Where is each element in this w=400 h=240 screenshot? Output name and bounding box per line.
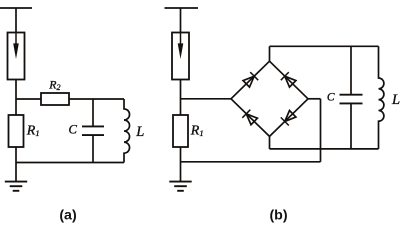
bridge diamond edge left-top (231, 61, 270, 99)
svg-text:(b): (b) (269, 207, 287, 223)
capacitor C lead bottom (b) (350, 104, 352, 149)
svg-text:L: L (135, 124, 144, 140)
wire bridge bottom vertex to tank bottom (269, 136, 271, 149)
svg-text:L: L (391, 92, 400, 108)
diode D1 (upper-left arm) (243, 72, 258, 87)
wire R1 to ground node (b) (180, 147, 182, 181)
wire node B to bridge left vertex (181, 98, 232, 100)
wire bridge top vertex to tank rail (269, 46, 271, 61)
capacitor C lead top (b) (350, 46, 352, 94)
wire top rail (b) (165, 7, 199, 9)
resistor R2 (41, 93, 69, 105)
diode D2 (upper-right arm) (281, 72, 296, 87)
current source I1 arrow (15, 33, 17, 44)
current source I2 box (172, 33, 189, 80)
resistor R1 (9, 115, 24, 147)
wire top lead (a) (15, 8, 17, 33)
ground (a) (5, 182, 27, 191)
bridge diamond edge top-right (270, 61, 309, 99)
wire bottom rail (a) (16, 162, 124, 164)
wire bridge return rail to ground node (181, 161, 321, 163)
wire R2 to tank top (a) (69, 98, 124, 100)
svg-text:C: C (327, 91, 335, 103)
capacitor C lead bottom (a) (92, 136, 94, 163)
wire node A to R2 (a) (16, 98, 41, 100)
svg-text:R2: R2 (48, 78, 60, 93)
wire tank bottom rail (b) (270, 148, 379, 150)
current source I2 arrow (180, 33, 182, 44)
wire node A to R1 (a) (15, 99, 17, 115)
svg-text:R1: R1 (26, 124, 40, 139)
bridge diamond edge left-bottom (231, 99, 270, 137)
svg-text:R1: R1 (190, 124, 204, 139)
ground (b) (169, 182, 191, 191)
inductor L (a) (124, 99, 130, 163)
wire bridge right vertex stub (308, 98, 321, 100)
wire tank top rail (b) (270, 45, 379, 47)
wire top lead (b) (180, 8, 182, 33)
wire top rail (a) (0, 7, 32, 9)
diode D4 (lower-right arm) (281, 111, 296, 126)
svg-text:C: C (69, 123, 78, 137)
current source I1 box (8, 33, 25, 80)
svg-text:(a): (a) (59, 207, 77, 223)
wire source to node A (a) (15, 80, 17, 100)
wire right vertex down (320, 99, 322, 162)
capacitor C plates (b) (340, 95, 363, 104)
diode D3 (lower-left arm) (242, 110, 257, 125)
resistor R1 (b) (173, 115, 188, 147)
wire node B to R1 (b) (180, 99, 182, 115)
capacitor C lead top (a) (92, 99, 94, 126)
wire R1 to ground node (a) (15, 147, 17, 181)
bridge diamond edge bottom-right (270, 99, 309, 137)
inductor L (b) (379, 46, 384, 149)
wire source to node B (b) (180, 80, 182, 100)
capacitor C plates (a) (82, 126, 104, 135)
